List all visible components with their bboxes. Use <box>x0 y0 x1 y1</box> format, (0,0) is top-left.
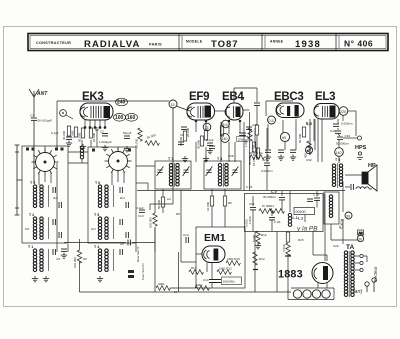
resistor FA900 <box>145 133 159 146</box>
wire node to EF9 <box>176 106 190 111</box>
capacitor EB4 100cm <box>237 133 249 142</box>
node 30 lower <box>357 235 363 241</box>
humbucking choke <box>356 187 372 189</box>
svg-text:C29: C29 <box>333 244 339 248</box>
ground under T1 <box>32 276 38 282</box>
tube EBC3 <box>274 91 304 118</box>
svg-text:EM1: EM1 <box>204 232 226 244</box>
tube EM1 <box>202 232 226 263</box>
ground under C2 <box>102 145 108 151</box>
resistor 10.000 1w <box>252 148 260 166</box>
capacitor top EB4 <box>254 103 260 105</box>
ground EF9 cath <box>203 156 209 162</box>
terminal pair x130 <box>128 270 134 278</box>
svg-text:T 3: T 3 <box>30 181 35 185</box>
wires EB4 down <box>228 97 244 162</box>
coil L2 box <box>294 208 315 221</box>
resistor 1M right EB4 <box>248 142 256 165</box>
ground under T4 <box>97 276 103 282</box>
svg-text:N° 406: N° 406 <box>344 39 373 49</box>
resistor Pr 3M <box>259 195 284 213</box>
svg-text:(arr): (arr) <box>353 289 363 295</box>
capacitor 4,5 cathode <box>56 249 67 261</box>
svg-text:R15: R15 <box>298 238 304 242</box>
svg-text:C33: C33 <box>345 134 351 138</box>
resistor 20.000 EK3 <box>89 128 96 142</box>
svg-text:Pour Sat PU: Pour Sat PU <box>141 262 145 280</box>
svg-text:160: 160 <box>127 115 136 121</box>
resistor 25.000 <box>135 128 143 148</box>
EF9 bottom cluster extras <box>181 127 214 149</box>
svg-text:L 2: L 2 <box>298 217 303 221</box>
svg-text:100.000: 100.000 <box>73 257 77 268</box>
resistor R17 <box>189 266 203 274</box>
svg-text:20.000 5w: 20.000 5w <box>249 151 264 155</box>
node 0,5 <box>268 116 276 124</box>
transformer TA <box>344 251 354 297</box>
ground EF9 <box>182 156 188 162</box>
transformer T3 <box>30 181 49 208</box>
svg-text:y la PB: y la PB <box>296 226 318 233</box>
svg-text:4.500: 4.500 <box>282 244 286 252</box>
resistor R16 1M <box>226 257 240 265</box>
svg-text:73: 73 <box>205 126 209 130</box>
capacitor C17 <box>249 196 256 231</box>
svg-text:R17: R17 <box>191 266 197 270</box>
svg-text:5 MΩ: 5 MΩ <box>252 234 256 242</box>
svg-text:90: 90 <box>282 136 286 140</box>
wires under tubes to boxes <box>91 119 314 162</box>
resistor A6 under T8 <box>223 189 232 227</box>
svg-text:C2: C2 <box>100 130 104 134</box>
capacitor EF9 cath <box>209 146 215 148</box>
wire field column <box>342 182 344 244</box>
resistor EBC3 50.000 <box>298 127 306 143</box>
ground EK3 cathode <box>66 141 72 147</box>
svg-text:ANT: ANT <box>36 91 48 97</box>
svg-text:50.000cm: 50.000cm <box>336 142 350 146</box>
capacitor 0,1uF C13 <box>136 206 145 218</box>
capacitor EBC3 a <box>278 150 284 152</box>
svg-text:L.1: L.1 <box>293 216 298 220</box>
svg-text:T 5: T 5 <box>94 213 99 217</box>
svg-text:C13: C13 <box>138 214 144 218</box>
svg-text:1MΩ: 1MΩ <box>196 283 203 287</box>
tube EB4 <box>222 91 244 120</box>
svg-text:Rot: Rot <box>53 196 58 200</box>
svg-text:30: 30 <box>358 238 362 242</box>
svg-text:C.20: C.20 <box>274 220 281 224</box>
IF transformer T8 <box>204 157 241 189</box>
terminal strip box2 <box>92 149 131 152</box>
svg-text:C32: C32 <box>306 158 312 162</box>
wire between tuner boxes <box>57 152 155 252</box>
capacitor 0,1uF EK3 cathode <box>51 126 72 139</box>
wires EBC3 <box>266 101 296 150</box>
resistor EF9 cath <box>204 130 207 140</box>
svg-text:R3: R3 <box>83 257 87 261</box>
svg-text:50.000: 50.000 <box>248 155 252 165</box>
heater wires 1883 <box>318 282 327 288</box>
resistor 100.000 mid <box>149 190 158 252</box>
node 220 <box>339 107 348 116</box>
svg-text:C.19: C.19 <box>313 193 320 197</box>
capacitor =C speaker <box>345 184 353 190</box>
node junction 15 <box>169 100 177 108</box>
svg-text:C30: C30 <box>330 129 336 133</box>
capacitor EB4 <box>240 133 246 135</box>
svg-text:T 1: T 1 <box>28 245 33 249</box>
capacitor C27 <box>246 123 258 129</box>
antenna <box>29 89 39 117</box>
wire cap down <box>256 106 258 125</box>
oscillator coupling coil <box>80 140 83 163</box>
resistor EF9 50.000 <box>179 131 187 146</box>
svg-text:Reel Sat W: Reel Sat W <box>136 246 140 262</box>
node 30 upper <box>345 212 352 219</box>
capacitor C30 <box>330 129 341 133</box>
svg-text:5,9: 5,9 <box>223 123 228 127</box>
transformer T1 <box>28 245 49 272</box>
capacitor C14 100.000cm <box>203 277 242 285</box>
svg-text:0,1µF: 0,1µF <box>206 138 214 142</box>
capacitor C6 <box>120 240 130 247</box>
svg-text:C8: C8 <box>180 133 184 137</box>
svg-text:C17: C17 <box>249 202 255 206</box>
ground under C3 <box>124 146 130 152</box>
EM1 section box <box>196 227 245 288</box>
capacitor C19 <box>313 191 320 208</box>
field coil box <box>324 192 339 224</box>
svg-text:30.000: 30.000 <box>197 139 201 149</box>
mains plug <box>365 278 376 292</box>
tube EK3 <box>80 91 113 120</box>
node 140 EL3 <box>335 148 344 157</box>
svg-text:GO: GO <box>91 227 96 231</box>
svg-text:C1: C1 <box>30 114 34 118</box>
svg-text:100.000c: 100.000c <box>223 280 236 284</box>
wire node down <box>172 108 174 190</box>
svg-text:3MΩ: 3MΩ <box>158 282 165 286</box>
tuner box 1 <box>22 146 68 243</box>
tiny caps inside tuner box1 <box>59 202 61 238</box>
svg-text:PO: PO <box>25 227 30 231</box>
svg-text:220: 220 <box>340 110 346 114</box>
resistor EBC3 400 <box>304 141 312 158</box>
oscillator box <box>245 194 324 232</box>
svg-text:5,5: 5,5 <box>306 121 312 126</box>
capacitor C20 <box>269 211 281 231</box>
capacitor C19 <box>307 199 313 201</box>
svg-text:T 6: T 6 <box>95 181 100 185</box>
svg-text:HP: HP <box>368 163 376 169</box>
svg-text:50-100µµF: 50-100µµF <box>38 119 53 123</box>
node 73 <box>203 123 211 131</box>
resistor 50.000 under T7 <box>157 189 165 213</box>
ground EBC3 b <box>290 155 296 161</box>
svg-text:C.24: C.24 <box>246 185 253 189</box>
resistor EM1 bottom <box>195 283 209 290</box>
wires right section <box>325 224 357 261</box>
svg-text:EK3: EK3 <box>82 91 103 103</box>
socket2 leads <box>112 147 124 185</box>
wire EB4 top <box>234 88 257 103</box>
svg-text:50µµF: 50µµF <box>123 131 132 135</box>
svg-text:R6: R6 <box>228 201 232 205</box>
resistor R12b <box>252 231 267 249</box>
svg-text:Secteur: Secteur <box>373 266 378 282</box>
svg-text:4,5: 4,5 <box>56 257 61 261</box>
wire AVC row <box>64 228 155 292</box>
svg-text:5.000: 5.000 <box>245 219 249 227</box>
svg-text:5.000cm: 5.000cm <box>341 122 353 126</box>
resistor 1M between EB4 EBC3 <box>244 128 252 147</box>
svg-text:Rot: Rot <box>120 196 125 200</box>
svg-text:50.000: 50.000 <box>298 133 302 143</box>
tuner box 2 <box>88 147 136 243</box>
wire taps to plug <box>363 256 367 262</box>
capacitor EF9 <box>178 142 184 144</box>
main HT bus <box>137 190 345 192</box>
tube EF9 <box>187 91 215 120</box>
svg-text:1.000: 1.000 <box>248 216 252 224</box>
dial scale bracket <box>15 145 23 215</box>
svg-text:T 4: T 4 <box>94 245 99 249</box>
resistor chain y288 <box>156 282 196 294</box>
resistor 10.000 under T8 <box>206 189 214 227</box>
resistor column right of EM1 <box>282 232 291 293</box>
svg-text:T 5: T 5 <box>335 158 340 162</box>
wire 220 to HPS <box>348 111 356 136</box>
capacitor C3 50uuF <box>123 131 132 138</box>
svg-text:PARIS: PARIS <box>149 42 162 46</box>
svg-text:T 7: T 7 <box>168 157 173 161</box>
svg-text:T 8: T 8 <box>217 157 222 161</box>
wires EM1 <box>196 254 212 288</box>
resistor EB4 <box>220 126 223 136</box>
long vertical EB4 right <box>249 112 251 190</box>
svg-text:24: 24 <box>174 290 178 294</box>
wires mid verticals <box>244 122 267 190</box>
svg-text:100: 100 <box>115 115 124 121</box>
ground EF9 mid <box>207 148 213 154</box>
capacitor C2 1.000uuF <box>99 130 112 145</box>
EK3 pins <box>84 120 106 129</box>
svg-text:C27: C27 <box>252 123 258 127</box>
svg-text:30: 30 <box>346 215 350 219</box>
node terminal near EK3 <box>60 110 73 119</box>
svg-text:00100: 00100 <box>296 210 306 214</box>
svg-text:EF9: EF9 <box>189 91 209 103</box>
svg-text:A4: A4 <box>167 197 171 201</box>
node 90 <box>280 132 289 141</box>
svg-text:HPS: HPS <box>355 145 367 151</box>
svg-text:30.000: 30.000 <box>62 130 66 140</box>
wire to HPS terminal <box>343 136 362 140</box>
bottom bus <box>80 291 292 293</box>
wires EF9 to T7 <box>195 110 249 132</box>
svg-text:TO87: TO87 <box>211 39 239 50</box>
svg-text:1938: 1938 <box>295 39 321 50</box>
resistor mid column <box>251 125 259 160</box>
svg-text:1MΩ R12: 1MΩ R12 <box>219 267 232 271</box>
speaker HP <box>345 163 377 191</box>
svg-text:1.000µµF: 1.000µµF <box>99 140 112 144</box>
svg-text:CONSTRUCTEUR: CONSTRUCTEUR <box>36 41 71 45</box>
ground EK3 grid <box>80 144 86 150</box>
svg-text:ANNEE: ANNEE <box>270 40 284 44</box>
svg-text:15: 15 <box>171 103 175 107</box>
node 140 <box>221 134 230 143</box>
capacitor C33 <box>337 134 350 139</box>
svg-text:1MΩ R16: 1MΩ R16 <box>227 257 240 261</box>
ground EBC3 a <box>278 155 284 161</box>
wire antenna to T3 <box>33 121 35 183</box>
svg-text:0,5: 0,5 <box>269 119 274 123</box>
transformer T5b <box>94 213 114 240</box>
svg-text:25.000: 25.000 <box>135 138 139 148</box>
wire left of EM1 <box>179 190 197 292</box>
tube EL3 <box>314 91 339 119</box>
trimmer caps box2 <box>120 187 122 255</box>
socket switch S1 <box>32 149 59 176</box>
svg-text:240: 240 <box>117 100 126 106</box>
wire bottom to box1 <box>67 244 69 252</box>
capacitor C24 3.000cm <box>261 158 273 173</box>
ground under T1 right <box>43 276 49 282</box>
pilot lamps row <box>288 288 334 300</box>
terminal strip box1 <box>26 148 64 151</box>
svg-text:1 MΩ: 1 MΩ <box>71 130 75 138</box>
resistor 20.000 5w <box>249 151 264 159</box>
capacitor C1 <box>30 114 52 123</box>
svg-text:50.000: 50.000 <box>157 199 161 209</box>
svg-text:20.000: 20.000 <box>92 132 96 142</box>
svg-text:T 2: T 2 <box>29 213 34 217</box>
node 45 <box>305 146 312 153</box>
svg-text:EL3: EL3 <box>315 91 335 103</box>
resistor 50.000 EK3 <box>78 128 85 142</box>
svg-text:EB4: EB4 <box>222 91 244 103</box>
svg-text:1883: 1883 <box>278 269 303 281</box>
tiny caps inside tuner box2 <box>126 202 128 238</box>
transformer T2 <box>29 213 49 240</box>
socket switch S2 <box>105 148 132 175</box>
capacitor 5.000cm <box>333 122 353 127</box>
svg-text:10.000: 10.000 <box>206 201 210 211</box>
svg-text:C28: C28 <box>228 154 234 158</box>
svg-text:50.000: 50.000 <box>78 132 82 142</box>
svg-text:RADIALVA: RADIALVA <box>84 39 140 50</box>
wire 1883 plate <box>313 231 334 300</box>
svg-text:C10: C10 <box>183 233 189 237</box>
IF transformer T7 <box>155 157 191 189</box>
svg-text:TA: TA <box>346 244 354 251</box>
svg-text:MODELE: MODELE <box>186 40 203 44</box>
svg-text:1 MΩ: 1 MΩ <box>244 139 248 147</box>
svg-text:R9: R9 <box>176 212 180 216</box>
capacitor C10 left EM1 <box>183 233 189 243</box>
mains selector taps <box>355 254 363 271</box>
value 160 <box>126 114 138 122</box>
svg-text:30.000cm: 30.000cm <box>263 195 277 199</box>
svg-text:R2: R2 <box>95 128 99 132</box>
fuse resistor AR <box>358 230 364 235</box>
socket1 leads <box>39 146 51 185</box>
title block box <box>28 34 388 51</box>
transformer T4 <box>94 245 114 272</box>
node 5,9 <box>222 120 230 128</box>
resistor R13 <box>253 252 265 270</box>
capacitor EBC3 b <box>290 150 296 152</box>
wires EL3 pins <box>315 115 343 163</box>
svg-text:C14: C14 <box>203 278 209 282</box>
resistor R12 1M <box>217 267 232 275</box>
svg-text:140: 140 <box>222 137 228 141</box>
svg-text:0,1µF: 0,1µF <box>136 206 144 210</box>
svg-text:100.000: 100.000 <box>149 217 153 228</box>
resistor 100.000 R3 <box>73 239 87 292</box>
wire EK3 stage top <box>57 101 169 148</box>
svg-text:0,1µF: 0,1µF <box>51 131 59 135</box>
transformer T5 output <box>332 158 342 188</box>
wires osc box <box>255 194 325 293</box>
coil L1 <box>288 191 297 226</box>
svg-text:R13: R13 <box>259 257 265 261</box>
value 240 <box>116 98 128 106</box>
trimmer caps box1 <box>53 187 55 255</box>
transformer T6 <box>95 181 114 208</box>
HPS jack symbol <box>357 152 363 160</box>
svg-text:R12: R12 <box>261 233 267 237</box>
svg-text:140: 140 <box>336 151 342 155</box>
resistor 1M EK3 <box>71 127 78 138</box>
capacitor C16 <box>279 191 285 211</box>
svg-text:Pr 3MΩ1: Pr 3MΩ1 <box>262 204 274 208</box>
tube 1883 <box>278 263 333 284</box>
svg-text:C.V: C.V <box>271 190 278 194</box>
capacitor under 0,5 <box>265 124 271 160</box>
value 100 <box>114 114 126 122</box>
svg-text:C6: C6 <box>120 242 124 246</box>
svg-text:20.000: 20.000 <box>186 127 190 137</box>
